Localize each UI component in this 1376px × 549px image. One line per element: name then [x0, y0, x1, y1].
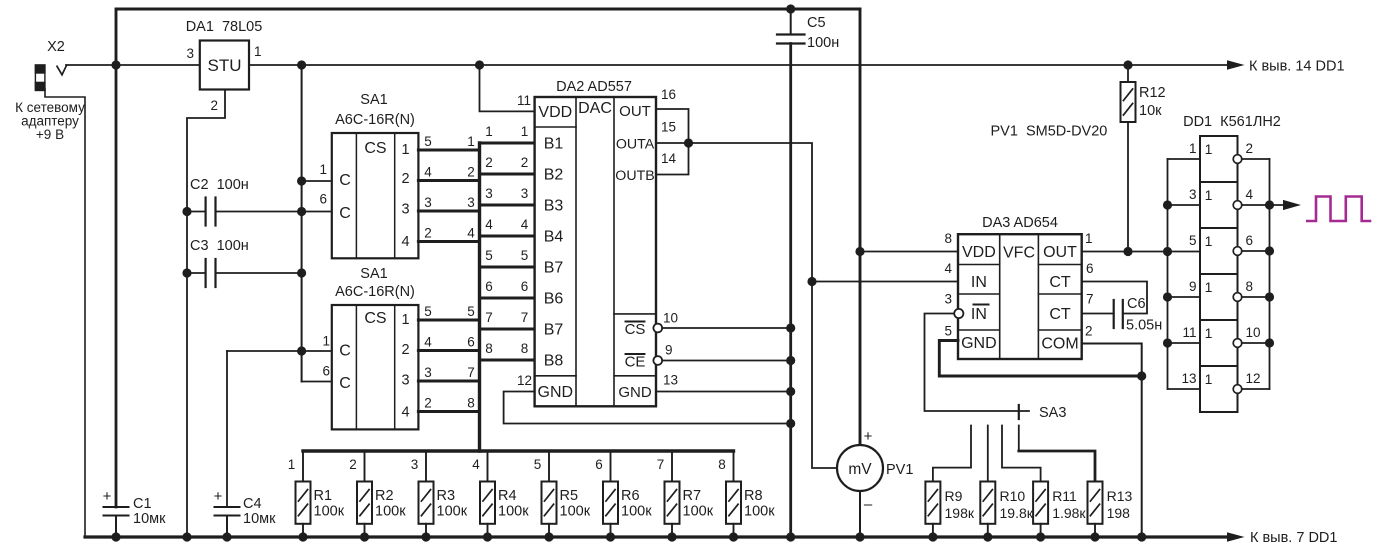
- svg-text:4: 4: [424, 335, 432, 350]
- svg-text:R13: R13: [1107, 488, 1133, 504]
- svg-text:2: 2: [424, 226, 432, 241]
- svg-text:100к: 100к: [314, 504, 345, 520]
- wire +9V vertical down to C1: [115, 65, 118, 507]
- svg-text:CE: CE: [625, 354, 646, 371]
- svg-text:6: 6: [322, 364, 330, 379]
- svg-text:К выв. 14 DD1: К выв. 14 DD1: [1249, 59, 1345, 75]
- svg-text:VDD: VDD: [538, 104, 572, 121]
- capacitor C5 100н: [777, 9, 839, 51]
- svg-text:3: 3: [944, 292, 952, 307]
- DAC chip DA2 AD557: [517, 79, 678, 406]
- resistor R3 100к: [411, 451, 468, 542]
- connector X2 jack symbol: [35, 39, 67, 91]
- svg-text:GND: GND: [618, 384, 652, 401]
- wire SA3 throw 1 to R9: [933, 426, 971, 482]
- svg-text:3: 3: [424, 365, 432, 380]
- svg-text:К выв. 7 DD1: К выв. 7 DD1: [1250, 530, 1337, 546]
- svg-text:C: C: [339, 205, 351, 222]
- svg-text:mV: mV: [848, 461, 872, 478]
- svg-text:R10: R10: [1000, 488, 1026, 504]
- wire DA3 IN pin4: [812, 281, 958, 283]
- svg-text:7: 7: [467, 365, 475, 380]
- svg-text:DD1 К561ЛН2: DD1 К561ЛН2: [1183, 114, 1281, 130]
- svg-text:6: 6: [485, 279, 493, 294]
- svg-text:DA3 AD654: DA3 AD654: [982, 215, 1058, 231]
- svg-text:R12: R12: [1139, 85, 1166, 101]
- wire DA3 pin3 to SA3: [925, 314, 1030, 412]
- svg-text:13: 13: [1181, 371, 1196, 386]
- svg-text:10к: 10к: [1139, 103, 1162, 119]
- svg-text:SA1: SA1: [360, 92, 387, 108]
- svg-text:R7: R7: [683, 488, 702, 504]
- switch SA3 pole: [1018, 405, 1020, 419]
- svg-text:B6: B6: [544, 291, 564, 308]
- svg-text:+: +: [214, 488, 223, 505]
- svg-text:B3: B3: [544, 198, 564, 215]
- wire DD1 output bus: [1269, 159, 1271, 389]
- svg-text:OUT: OUT: [1043, 244, 1077, 261]
- svg-text:5: 5: [485, 248, 493, 263]
- svg-text:C3 100н: C3 100н: [190, 238, 249, 254]
- svg-text:5: 5: [424, 304, 432, 319]
- arrow К выв. 7 DD1: [1227, 532, 1245, 542]
- svg-text:13: 13: [663, 373, 678, 388]
- inversion bubble DA2 CE pin9: [653, 356, 662, 365]
- svg-text:R9: R9: [945, 488, 963, 504]
- svg-text:100н: 100н: [807, 35, 839, 51]
- svg-text:IN: IN: [971, 274, 987, 291]
- svg-text:9: 9: [665, 343, 673, 358]
- wire DA3 OUT pin1 to DD1: [1082, 251, 1200, 253]
- svg-text:198к: 198к: [945, 505, 975, 521]
- svg-text:IN: IN: [971, 306, 987, 323]
- svg-text:A6C-16R(N): A6C-16R(N): [335, 112, 415, 128]
- wire DA3 CT pin7 to C6: [1082, 313, 1114, 315]
- svg-text:100к: 100к: [498, 504, 529, 520]
- resistor R6 100к: [595, 451, 652, 542]
- svg-text:14: 14: [661, 151, 677, 166]
- resistor R4 100к: [472, 451, 529, 542]
- svg-text:C: C: [339, 172, 351, 189]
- svg-text:7: 7: [521, 310, 529, 325]
- wire DA3 GND pin5 route: [939, 341, 1141, 377]
- svg-text:DA1 78L05: DA1 78L05: [186, 19, 263, 35]
- svg-text:11: 11: [1182, 325, 1196, 340]
- svg-text:5: 5: [424, 134, 432, 149]
- wire DA2 pin13 GND to ground line: [656, 391, 791, 393]
- svg-text:16: 16: [661, 87, 676, 102]
- svg-text:R1: R1: [314, 488, 333, 504]
- svg-text:19.8к: 19.8к: [1000, 505, 1034, 521]
- resistor R8 100к: [718, 451, 775, 542]
- voltmeter PV1 mV: [837, 428, 913, 537]
- svg-text:1: 1: [1205, 141, 1213, 157]
- svg-text:7: 7: [657, 457, 665, 472]
- svg-text:100к: 100к: [560, 504, 591, 520]
- wire +5V to DA2 VDD pin 11: [480, 65, 535, 111]
- svg-text:5: 5: [467, 304, 475, 319]
- capacitor C4 10мк polarized: [214, 351, 276, 537]
- svg-text:C6: C6: [1127, 296, 1146, 312]
- svg-text:3: 3: [401, 373, 409, 389]
- svg-text:1: 1: [322, 334, 330, 349]
- voltage regulator DA1 78L05: [186, 19, 263, 113]
- svg-text:1: 1: [1205, 371, 1213, 387]
- svg-text:5: 5: [521, 248, 529, 263]
- svg-text:6: 6: [467, 335, 475, 350]
- resistor R10 19.8к: [980, 482, 1033, 542]
- wire bundle horizontal to resistors: [303, 449, 734, 452]
- wire C2 row to SA1-1 pin6: [216, 211, 332, 213]
- svg-text:4: 4: [467, 226, 475, 241]
- wire DA2 CE to ground line: [662, 360, 791, 362]
- svg-text:100к: 100к: [683, 504, 714, 520]
- wire DA2 pin15 OUTA to PV1 and DA3 IN: [656, 143, 837, 468]
- svg-text:8: 8: [718, 457, 726, 472]
- resistor R2 100к: [349, 451, 406, 542]
- svg-text:–: –: [864, 496, 873, 513]
- svg-text:2: 2: [1246, 141, 1254, 156]
- svg-text:R4: R4: [498, 488, 517, 504]
- svg-text:8: 8: [944, 231, 952, 246]
- svg-text:R8: R8: [744, 488, 763, 504]
- svg-text:1: 1: [401, 142, 409, 158]
- arrow К выв. 14 DD1: [1227, 60, 1245, 70]
- svg-text:1.98к: 1.98к: [1052, 505, 1086, 521]
- svg-text:10: 10: [663, 311, 678, 326]
- svg-text:2: 2: [401, 171, 409, 187]
- wire +5V vertical x=302: [301, 65, 303, 382]
- svg-text:R5: R5: [560, 488, 579, 504]
- resistor R13 198: [1088, 482, 1133, 542]
- svg-text:1: 1: [288, 457, 296, 472]
- svg-text:12: 12: [517, 373, 532, 388]
- svg-text:7: 7: [1086, 292, 1094, 307]
- svg-text:7: 7: [485, 310, 493, 325]
- svg-text:+9 В: +9 В: [36, 127, 64, 142]
- svg-text:GND: GND: [538, 384, 574, 401]
- inversion bubble DA3 pin3: [954, 309, 963, 318]
- svg-text:6: 6: [521, 279, 529, 294]
- svg-text:R6: R6: [621, 488, 640, 504]
- wire SA3 throw 4 to R13: [1018, 426, 1020, 452]
- svg-text:B7: B7: [544, 260, 564, 277]
- wires DD1 outputs: [1242, 158, 1270, 160]
- svg-text:1: 1: [1205, 187, 1213, 203]
- svg-text:4: 4: [485, 217, 493, 232]
- wire +9V top rail loop: [116, 9, 860, 65]
- svg-text:8: 8: [467, 396, 475, 411]
- svg-text:SA1: SA1: [360, 266, 387, 282]
- svg-text:15: 15: [661, 120, 676, 135]
- resistor R12 10к pull-up: [1121, 60, 1166, 251]
- wire ground vertical x=790.7: [789, 44, 792, 538]
- svg-text:10мк: 10мк: [243, 511, 276, 527]
- svg-text:+: +: [864, 428, 873, 445]
- wire SA3 throw 3 to R11: [1002, 426, 1041, 482]
- svg-text:C2 100н: C2 100н: [190, 177, 249, 193]
- svg-text:1: 1: [467, 134, 475, 149]
- DIP switch SA1 (upper) A6C-16R(N): [319, 92, 418, 258]
- wire DA3 VDD pin8 to +9V: [860, 251, 958, 253]
- svg-text:1: 1: [485, 124, 493, 139]
- VFC chip DA3 AD654: [944, 215, 1093, 359]
- svg-text:2: 2: [467, 165, 475, 180]
- svg-text:4: 4: [401, 405, 409, 421]
- wire bundle vertical: [478, 143, 481, 451]
- svg-text:OUTA: OUTA: [616, 137, 655, 153]
- wire DD1 pin4 output with arrow: [1270, 204, 1285, 206]
- svg-text:CT: CT: [1049, 306, 1071, 323]
- svg-text:CS: CS: [625, 321, 646, 338]
- svg-text:C5: C5: [807, 15, 826, 31]
- resistor R1 100к: [288, 451, 345, 542]
- svg-text:11: 11: [517, 93, 531, 108]
- svg-text:1: 1: [401, 312, 409, 328]
- svg-text:3: 3: [1189, 187, 1197, 202]
- wires DD1 inputs: [1168, 158, 1201, 160]
- svg-text:VFC: VFC: [1003, 245, 1035, 262]
- node junction X2/+9V: [111, 60, 120, 69]
- svg-text:1: 1: [1085, 231, 1093, 246]
- svg-text:6: 6: [1086, 261, 1094, 276]
- svg-text:2: 2: [1085, 324, 1093, 339]
- svg-text:4: 4: [401, 234, 409, 250]
- svg-text:STU: STU: [208, 56, 242, 75]
- wires bundle to DA2 data pins B1-B8: [480, 142, 535, 145]
- svg-text:CT: CT: [1049, 274, 1071, 291]
- svg-text:C1: C1: [133, 496, 152, 512]
- resistor R5 100к: [534, 451, 591, 542]
- svg-text:OUT: OUT: [619, 103, 651, 120]
- svg-text:1: 1: [1205, 233, 1213, 249]
- wire DA3 COM pin2 to ground: [1082, 344, 1142, 538]
- svg-text:B4: B4: [544, 229, 564, 246]
- svg-text:8: 8: [485, 341, 493, 356]
- wire DA1 pin2 ground route: [187, 90, 225, 538]
- inversion bubbles DD1 outputs: [1233, 155, 1242, 164]
- svg-text:3: 3: [186, 46, 194, 61]
- svg-text:100к: 100к: [621, 504, 652, 520]
- svg-text:C: C: [339, 375, 351, 392]
- capacitor C3 100н: [187, 238, 302, 287]
- svg-text:3: 3: [424, 195, 432, 210]
- wire DA1 pin1 +5V line to arrow: [249, 64, 1232, 66]
- svg-text:3: 3: [485, 186, 493, 201]
- svg-text:2: 2: [210, 98, 218, 113]
- capacitor C2 100н: [187, 177, 249, 226]
- wire DA2 CS to ground line: [662, 327, 791, 329]
- resistor R9 198к: [925, 482, 974, 542]
- svg-text:8: 8: [1246, 279, 1254, 294]
- svg-text:3: 3: [401, 202, 409, 218]
- svg-text:6: 6: [319, 192, 327, 207]
- svg-text:R11: R11: [1052, 488, 1077, 504]
- rail junction dots: [111, 532, 120, 541]
- svg-text:DAC: DAC: [578, 100, 612, 117]
- svg-text:6: 6: [595, 457, 603, 472]
- svg-text:4: 4: [472, 457, 480, 472]
- wire X2 sleeve to bottom rail: [45, 89, 85, 537]
- svg-text:2: 2: [424, 396, 432, 411]
- resistor R11 1.98к: [1033, 482, 1086, 542]
- svg-text:4: 4: [521, 217, 529, 232]
- svg-text:2: 2: [401, 342, 409, 358]
- svg-text:1: 1: [1205, 279, 1213, 295]
- svg-text:R2: R2: [375, 488, 394, 504]
- svg-text:B2: B2: [544, 167, 564, 184]
- svg-text:R3: R3: [437, 488, 456, 504]
- svg-text:1: 1: [319, 162, 327, 177]
- svg-text:+: +: [103, 488, 112, 505]
- svg-text:A6C-16R(N): A6C-16R(N): [335, 284, 415, 300]
- wire SA1-2 pin6: [302, 381, 332, 383]
- svg-text:5: 5: [534, 457, 542, 472]
- svg-text:1: 1: [1205, 325, 1213, 341]
- resistor R7 100к: [657, 451, 714, 542]
- inverter chip DD1 К561ЛН2: [1181, 114, 1280, 412]
- svg-text:PV1: PV1: [886, 462, 913, 478]
- svg-text:100к: 100к: [744, 504, 775, 520]
- svg-text:COM: COM: [1041, 336, 1078, 353]
- svg-text:CS: CS: [364, 310, 386, 327]
- wire +9V vertical x=860 to PV1: [859, 9, 862, 445]
- svg-text:8: 8: [521, 341, 529, 356]
- svg-text:DA2 AD557: DA2 AD557: [556, 79, 632, 95]
- svg-text:C: C: [339, 343, 351, 360]
- square wave output symbol: [1306, 197, 1371, 222]
- capacitor C6 5.05н: [1114, 296, 1163, 334]
- svg-text:B8: B8: [544, 353, 564, 370]
- svg-text:9: 9: [1189, 279, 1197, 294]
- svg-text:2: 2: [485, 155, 493, 170]
- svg-text:GND: GND: [961, 335, 997, 352]
- inversion bubble DA2 CS pin10: [653, 324, 662, 333]
- svg-text:100к: 100к: [437, 504, 468, 520]
- svg-text:100к: 100к: [375, 504, 406, 520]
- svg-text:198: 198: [1107, 505, 1131, 521]
- svg-text:OUTB: OUTB: [615, 168, 654, 184]
- svg-text:CS: CS: [364, 140, 386, 157]
- svg-text:PV1 SM5D-DV20: PV1 SM5D-DV20: [991, 124, 1108, 140]
- svg-text:C4: C4: [243, 496, 262, 512]
- wire C4 to SA1-2 pin1: [227, 350, 332, 352]
- svg-text:5.05н: 5.05н: [1126, 318, 1162, 334]
- svg-text:3: 3: [411, 457, 419, 472]
- wires SA1 lower outputs to bundle: [418, 319, 479, 322]
- svg-text:5: 5: [944, 324, 952, 339]
- svg-text:2: 2: [349, 457, 357, 472]
- svg-text:6: 6: [1246, 233, 1254, 248]
- svg-text:3: 3: [467, 195, 475, 210]
- wire SA3 throw 2 to R10: [987, 426, 989, 482]
- svg-text:SA3: SA3: [1039, 405, 1066, 421]
- svg-text:4: 4: [424, 165, 432, 180]
- svg-text:VDD: VDD: [962, 244, 996, 261]
- svg-text:4: 4: [1246, 187, 1254, 202]
- wire DA2 pin16 OUT: [656, 109, 689, 143]
- svg-text:X2: X2: [47, 39, 65, 55]
- svg-text:12: 12: [1246, 371, 1261, 386]
- svg-text:B7: B7: [544, 322, 564, 339]
- svg-text:10: 10: [1246, 325, 1261, 340]
- wire DD1 input bus: [1167, 159, 1169, 389]
- wire SA1-1 pin1: [302, 180, 332, 182]
- wire DA3 CT pin6 to C6: [1082, 282, 1147, 314]
- svg-text:B1: B1: [544, 136, 564, 153]
- svg-text:1: 1: [1189, 141, 1197, 156]
- DIP switch SA1 (lower) A6C-16R(N): [322, 266, 418, 429]
- bottom ground rail: [85, 535, 1232, 538]
- capacitor C1 10мк polarized: [103, 488, 166, 537]
- svg-text:1: 1: [521, 124, 529, 139]
- svg-text:4: 4: [944, 261, 952, 276]
- svg-text:3: 3: [521, 186, 529, 201]
- wire X2 tip to DA1 pin3: [66, 64, 200, 66]
- svg-text:1: 1: [254, 44, 262, 59]
- svg-text:2: 2: [521, 155, 529, 170]
- wire DA2 pin14 OUTB: [656, 143, 689, 175]
- node dots on ground line x=187: [182, 207, 191, 216]
- wires SA1 upper outputs to bundle: [418, 149, 479, 152]
- wire DA2 pin12 GND route under chip: [504, 392, 791, 424]
- label: К сетевому адаптеру +9 В: [15, 100, 85, 142]
- svg-text:5: 5: [1189, 233, 1197, 248]
- svg-text:10мк: 10мк: [133, 511, 166, 527]
